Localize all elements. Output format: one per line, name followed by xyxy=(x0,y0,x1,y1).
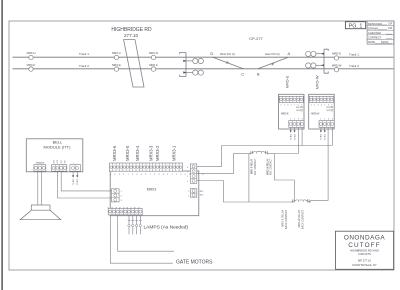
svg-text:6: 6 xyxy=(328,104,329,106)
speaker LS1 xyxy=(20,205,61,220)
svg-text:DRAWN: DRAWN xyxy=(368,26,378,30)
svg-text:CIRCUITS: CIRCUITS xyxy=(358,252,371,256)
wire MRD-W pin1 stub xyxy=(320,127,323,140)
svg-text:B12: B12 xyxy=(327,107,330,109)
svg-text:5: 5 xyxy=(123,207,125,208)
svg-text:B12: B12 xyxy=(296,107,299,109)
wire gate motor A xyxy=(118,215,174,251)
MRX3 right 4-terminal strip xyxy=(187,164,196,183)
detector MRX-K track2 xyxy=(27,63,36,71)
wire BELL + stub xyxy=(72,172,75,185)
BELL speaker terminal strip xyxy=(34,162,46,172)
MRX3 lower right 2-terminal strip xyxy=(188,189,203,198)
MRX3 bottom terminal strip xyxy=(108,207,142,215)
svg-text:MRD-E: MRD-E xyxy=(332,52,341,56)
wire bell N12 to MRX3 xyxy=(57,171,111,198)
svg-text:TO B12: TO B12 xyxy=(291,134,293,140)
svg-text:IN1: IN1 xyxy=(61,160,63,163)
svg-text:MRX3-3: MRX3-3 xyxy=(149,145,154,161)
svg-text:4: 4 xyxy=(302,119,303,121)
svg-text:2: 2 xyxy=(314,104,315,106)
svg-text:MRX3-1: MRX3-1 xyxy=(172,145,177,161)
svg-text:3: 3 xyxy=(328,119,329,121)
detector MRX-E track2 xyxy=(112,63,121,71)
svg-text:FAYETTEVILLE, NY: FAYETTEVILLE, NY xyxy=(352,263,377,267)
crossover west X/O xyxy=(210,51,244,77)
svg-text:MRX3-6: MRX3-6 xyxy=(112,145,117,161)
svg-text:GATE MOTORS: GATE MOTORS xyxy=(176,260,213,266)
svg-text:4: 4 xyxy=(187,167,188,169)
svg-text:1: 1 xyxy=(281,104,282,106)
svg-text:ONONDAGA: ONONDAGA xyxy=(344,235,386,242)
detector MRX-H track1 xyxy=(27,51,36,60)
wire MRD-E pin2 stub xyxy=(293,127,296,140)
wire bell IN2 to MRX3 xyxy=(61,171,111,191)
svg-text:JSF: JSF xyxy=(388,27,393,30)
svg-text:4: 4 xyxy=(332,119,333,121)
svg-text:N12: N12 xyxy=(296,110,299,112)
BELL mid terminal strip xyxy=(52,160,67,171)
svg-text:DATE: DATE xyxy=(368,40,375,44)
node K2 MRD-W contact label xyxy=(298,209,304,229)
svg-text:A: A xyxy=(287,51,290,56)
svg-text:B12: B12 xyxy=(200,191,203,193)
svg-text:4: 4 xyxy=(291,104,292,106)
detector MRD-W track2 xyxy=(332,63,342,72)
svg-text:N.O. CONTACT: N.O. CONTACT xyxy=(254,158,257,175)
svg-text:TO N12: TO N12 xyxy=(325,134,327,141)
svg-text:MRD-E: MRD-E xyxy=(285,75,290,88)
svg-text:MODULE (ITT): MODULE (ITT) xyxy=(44,145,72,150)
svg-text:Track 1: Track 1 xyxy=(349,52,359,56)
wire K1 right drop xyxy=(274,154,294,202)
svg-text:MRD-E RELAY: MRD-E RELAY xyxy=(251,158,254,174)
wire MRD-W pin4 down xyxy=(331,127,333,145)
svg-text:TO N12: TO N12 xyxy=(77,179,79,186)
svg-text:5: 5 xyxy=(294,104,295,106)
signal 2CD track1 xyxy=(183,58,203,63)
svg-text:Track 2: Track 2 xyxy=(349,64,359,68)
svg-text:CORRECT: CORRECT xyxy=(368,36,382,40)
module MRD-E xyxy=(279,94,305,129)
wire MRD-W pin3 down xyxy=(311,127,328,200)
svg-text:MRD-W RELAY: MRD-W RELAY xyxy=(266,158,269,175)
svg-text:2: 2 xyxy=(284,104,285,106)
svg-text:LAMPS (As Needed): LAMPS (As Needed) xyxy=(144,224,189,230)
svg-text:MRX3-5: MRX3-5 xyxy=(125,145,130,161)
detector MRX-F track2 xyxy=(149,63,158,71)
svg-text:MP 277.10: MP 277.10 xyxy=(358,259,371,263)
svg-text:TO B12: TO B12 xyxy=(321,134,323,140)
svg-text:+: + xyxy=(73,162,74,164)
svg-text:CP-277: CP-277 xyxy=(249,36,263,41)
node K1 MRD-E contact label xyxy=(251,158,257,175)
svg-text:MRX-K: MRX-K xyxy=(27,63,36,67)
track 1 xyxy=(13,56,394,58)
svg-text:1: 1 xyxy=(311,104,312,106)
wire MRD-E pin1 stub xyxy=(290,127,293,140)
svg-text:West X/O (1): West X/O (1) xyxy=(220,52,235,56)
svg-text:MRX3: MRX3 xyxy=(147,188,157,192)
svg-text:Track 1: Track 1 xyxy=(79,52,89,56)
wire BELL - stub xyxy=(76,172,79,186)
signal 2AB track2 xyxy=(306,63,324,68)
svg-text:BACK CONTACT: BACK CONTACT xyxy=(285,209,288,229)
wire MRD-E pin3 down xyxy=(274,127,298,153)
wire K1 left to K2 rail xyxy=(248,154,250,202)
svg-text:CHECKED: CHECKED xyxy=(368,31,381,35)
wire MRX3 T2 to contact K1 xyxy=(197,154,234,174)
wire lamp 3 xyxy=(135,215,137,235)
node K2 MRD-E contact label xyxy=(282,209,288,229)
svg-text:5: 5 xyxy=(324,104,325,106)
svg-text:2: 2 xyxy=(188,191,189,193)
MRX3 top terminal strip xyxy=(110,163,205,176)
svg-text:MRX-H: MRX-H xyxy=(27,51,36,55)
svg-text:MRX-D: MRX-D xyxy=(149,51,158,55)
module MRX3 body xyxy=(110,171,199,216)
svg-text:1: 1 xyxy=(187,181,188,183)
svg-text:TO N12: TO N12 xyxy=(294,134,296,141)
wire speaker lead 1 xyxy=(37,171,39,205)
svg-text:4: 4 xyxy=(120,207,122,208)
svg-text:MRX-E: MRX-E xyxy=(112,63,121,67)
svg-text:N12: N12 xyxy=(57,160,59,163)
svg-text:1: 1 xyxy=(121,191,122,193)
svg-text:1: 1 xyxy=(108,207,110,208)
svg-text:6: 6 xyxy=(127,207,129,208)
svg-text:C: C xyxy=(241,72,244,77)
wire lamp 2 xyxy=(132,215,134,235)
svg-text:6: 6 xyxy=(298,104,299,106)
signal mast west xyxy=(180,53,186,77)
svg-text:1: 1 xyxy=(188,195,189,197)
module BELL MODULE (ITT) xyxy=(26,139,83,172)
svg-text:MRX3-4: MRX3-4 xyxy=(135,145,140,161)
svg-text:2: 2 xyxy=(324,119,325,121)
svg-text:MRD-W: MRD-W xyxy=(311,113,320,115)
wire MRX3 T1 to bus xyxy=(197,146,222,167)
MRX3 left 3-terminal strip xyxy=(112,189,122,202)
svg-text:3: 3 xyxy=(187,172,188,174)
signal mast east xyxy=(324,49,328,73)
track 2 xyxy=(13,68,394,70)
title table designed/drawn xyxy=(367,21,394,44)
relay contact pair K2 (MRD-E / MRD-W) xyxy=(291,199,311,203)
svg-text:Track 2: Track 2 xyxy=(79,64,89,68)
svg-text:2: 2 xyxy=(121,195,122,197)
svg-text:7: 7 xyxy=(131,207,133,208)
svg-text:3: 3 xyxy=(318,104,319,106)
svg-text:N12: N12 xyxy=(327,110,330,112)
svg-text:MRX3-2: MRX3-2 xyxy=(155,145,160,161)
svg-text:HIGHBRIDGE RD XING: HIGHBRIDGE RD XING xyxy=(350,248,379,252)
scan edge line xyxy=(1,0,2,290)
svg-text:MRD-W: MRD-W xyxy=(315,75,320,89)
wire MRD-W pin2 stub xyxy=(324,127,327,140)
svg-text:MRX-C: MRX-C xyxy=(112,51,121,55)
svg-text:8: 8 xyxy=(135,207,137,208)
svg-text:3: 3 xyxy=(121,200,122,202)
svg-text:N12: N12 xyxy=(200,195,203,197)
svg-text:BACK CONTACT: BACK CONTACT xyxy=(301,209,304,229)
svg-text:East X/O (2): East X/O (2) xyxy=(265,52,279,56)
PG.1 box xyxy=(345,22,365,30)
svg-text:2: 2 xyxy=(294,119,295,121)
svg-text:JSF: JSF xyxy=(388,23,393,26)
signal 2AB track1 xyxy=(306,51,324,56)
svg-text:N.O. CONTACT: N.O. CONTACT xyxy=(270,158,273,175)
svg-text:4: 4 xyxy=(321,104,322,106)
svg-text:9: 9 xyxy=(138,207,140,208)
wire gate motor B xyxy=(110,215,173,263)
svg-text:CUTOFF: CUTOFF xyxy=(348,242,380,249)
svg-text:1: 1 xyxy=(290,119,291,121)
BELL right terminal strip xyxy=(70,162,81,171)
node K1 MRD-W contact label xyxy=(266,158,272,175)
detector MRX-D track1 xyxy=(149,51,158,60)
svg-text:MRX-F: MRX-F xyxy=(149,63,158,67)
svg-text:PG. 1: PG. 1 xyxy=(349,24,363,30)
svg-text:2: 2 xyxy=(112,207,114,208)
signal 2CD track2 xyxy=(183,70,203,75)
svg-text:B12: B12 xyxy=(53,160,55,163)
svg-text:TO B12: TO B12 xyxy=(73,179,75,185)
detector MRX-C track1 xyxy=(112,51,121,60)
wire bus 12V xyxy=(222,145,333,147)
wire lamp 1 xyxy=(128,215,130,235)
svg-text:3: 3 xyxy=(287,104,288,106)
svg-text:2: 2 xyxy=(187,176,188,178)
svg-text:DESIGNED: DESIGNED xyxy=(368,22,382,26)
svg-text:MRD-W: MRD-W xyxy=(332,63,342,67)
wire lamp 4 xyxy=(139,215,141,235)
module MRD-W xyxy=(309,94,335,129)
crossover east X/O xyxy=(257,51,291,77)
road crossing HIGHBRIDGE RD xyxy=(111,27,152,87)
svg-text:SPEAKER: SPEAKER xyxy=(36,162,45,165)
svg-text:IN2: IN2 xyxy=(65,160,67,163)
relay contact pair K1 (MRD-E / MRD-W) xyxy=(234,151,275,155)
wire MRX3 T4 to contact K2 xyxy=(197,181,291,203)
svg-text:1: 1 xyxy=(320,119,321,121)
wire speaker lead 2 xyxy=(41,171,43,205)
svg-text:277.10: 277.10 xyxy=(124,33,138,38)
detector MRD-E track1 xyxy=(332,52,341,61)
title block ONONDAGA CUTOFF xyxy=(336,231,394,269)
svg-text:3: 3 xyxy=(298,119,299,121)
svg-text:MRD-E: MRD-E xyxy=(281,113,289,115)
svg-text:D: D xyxy=(210,51,213,56)
svg-text:3: 3 xyxy=(116,207,118,208)
svg-text:B: B xyxy=(257,72,260,77)
wire MRD-E pin4 down xyxy=(301,127,303,145)
